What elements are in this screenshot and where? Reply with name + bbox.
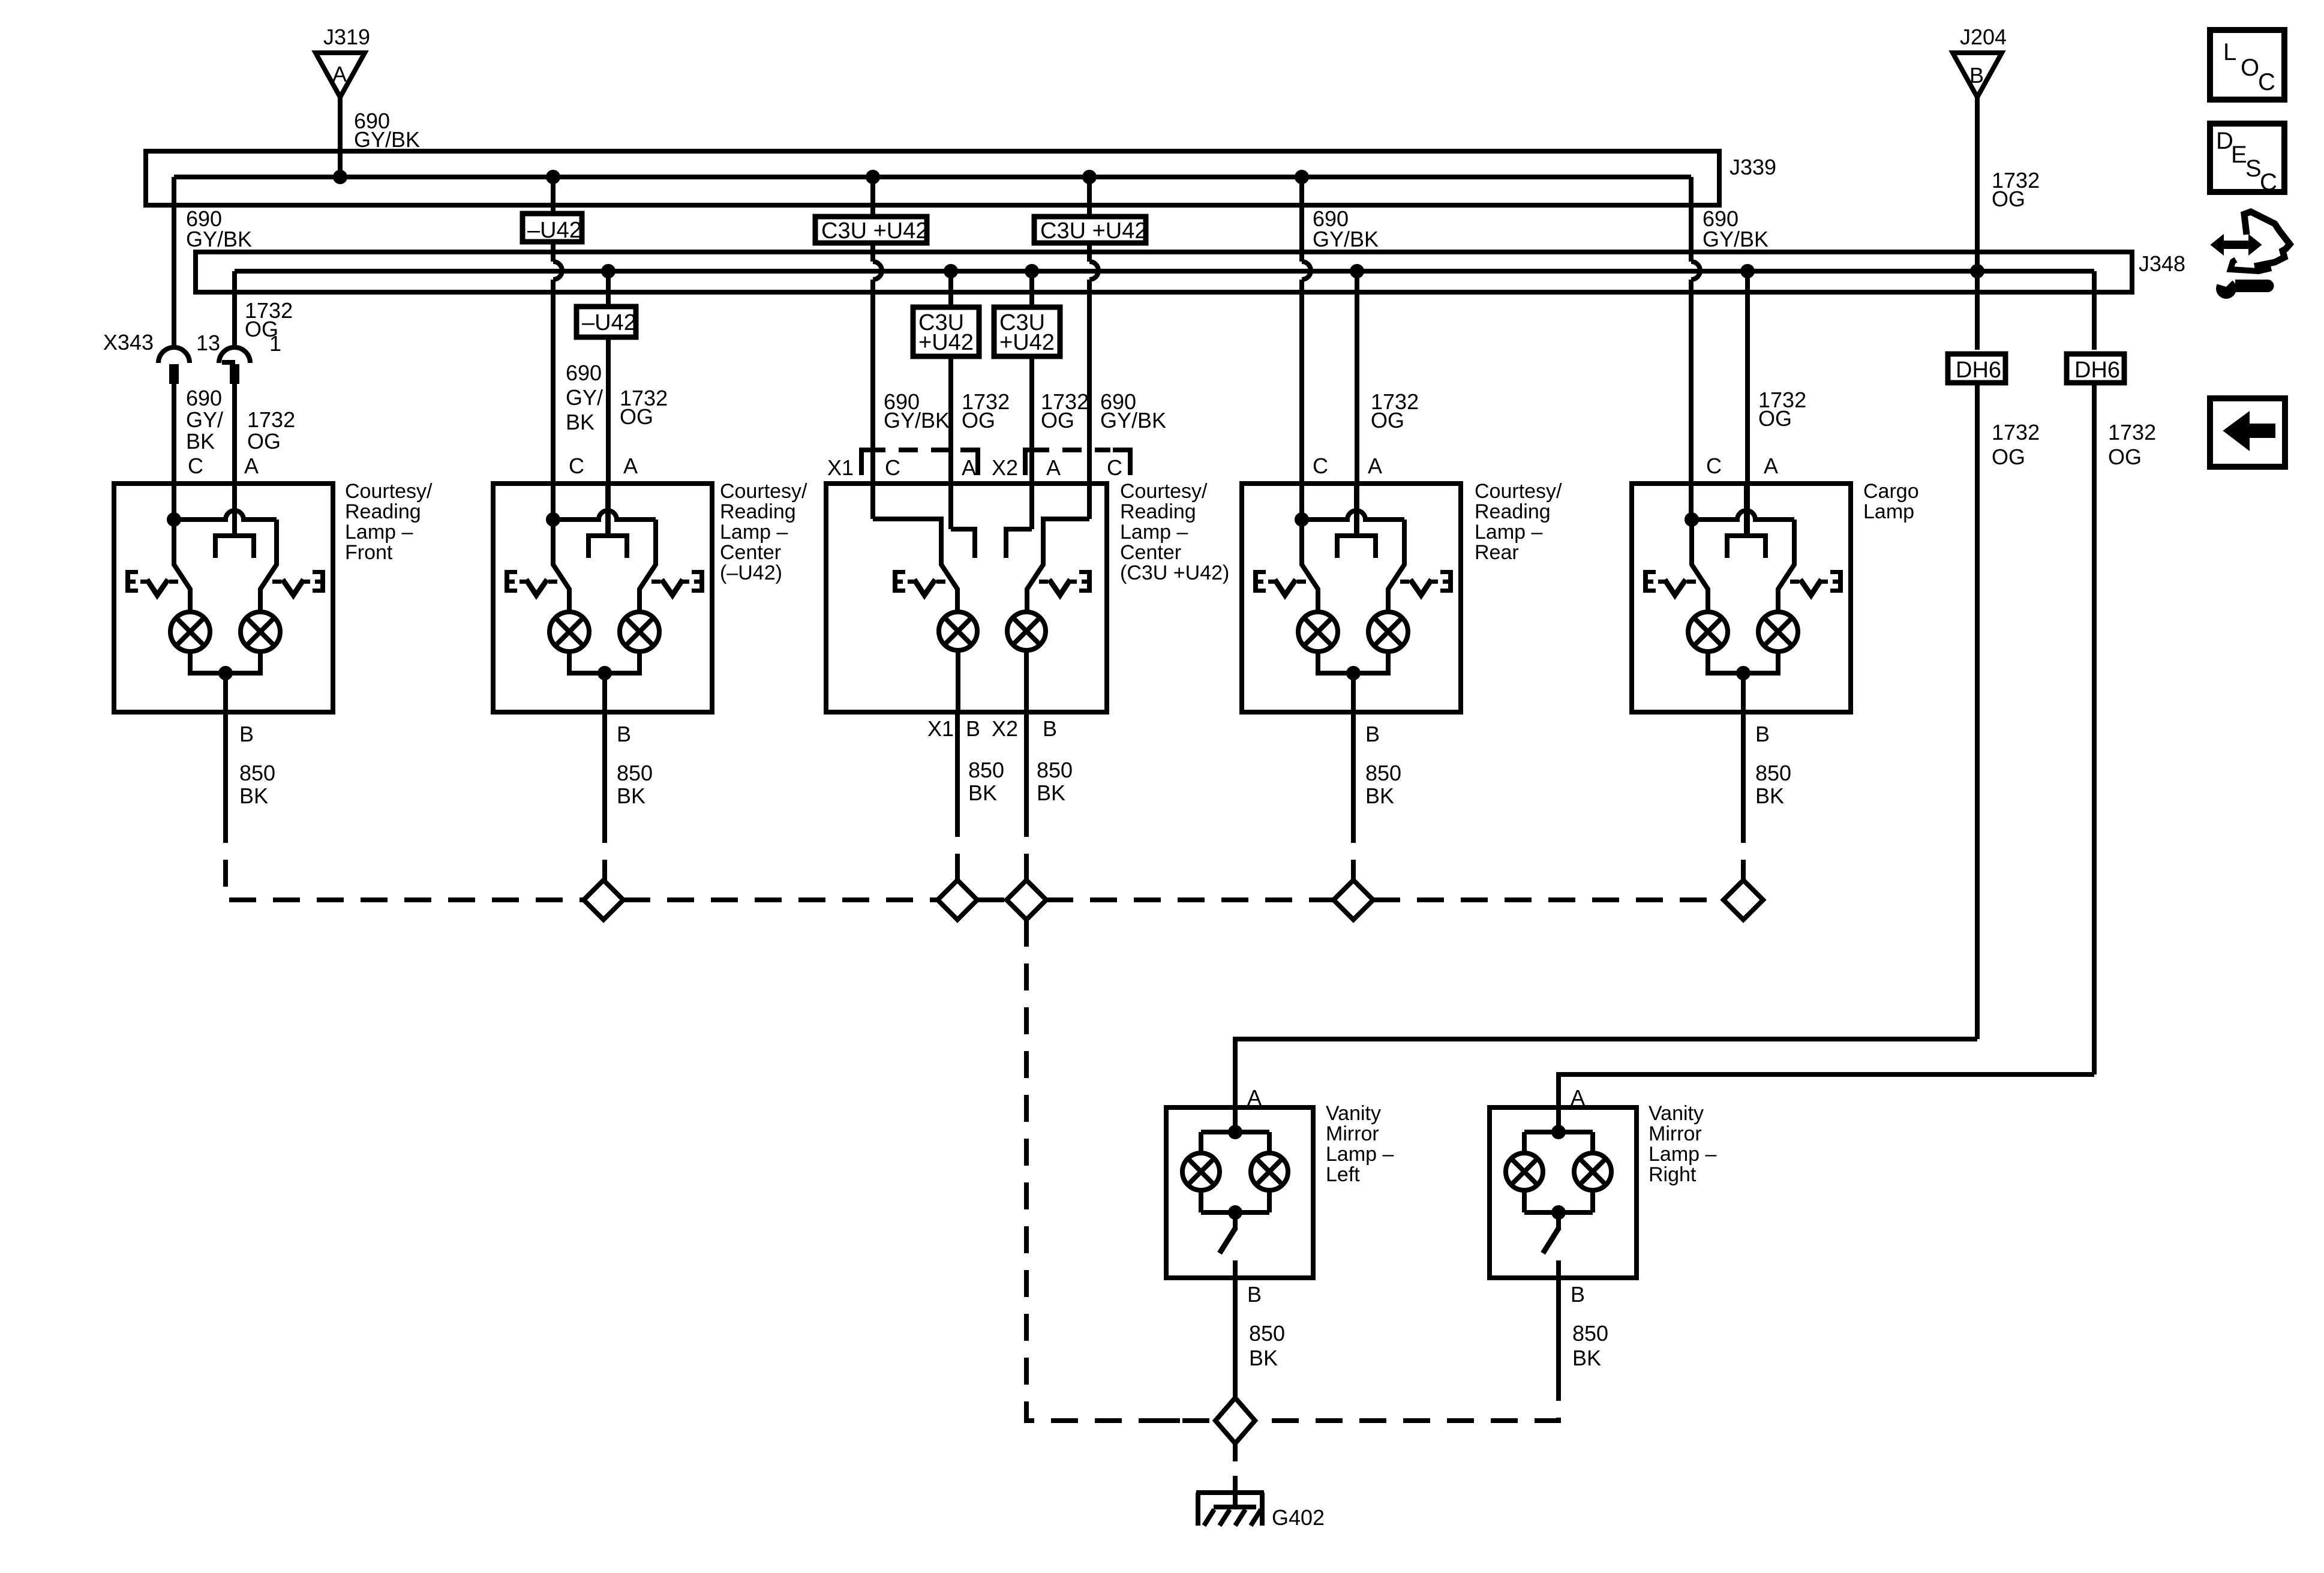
svg-text:Cargo: Cargo — [1863, 480, 1919, 503]
svg-text:Reading: Reading — [720, 500, 796, 523]
svg-text:A: A — [1368, 454, 1382, 478]
svg-text:C3U +U42: C3U +U42 — [821, 218, 928, 244]
svg-text:C: C — [885, 455, 900, 480]
svg-text:BK: BK — [186, 429, 215, 454]
svg-text:GY/BK: GY/BK — [1100, 408, 1166, 433]
svg-text:BK: BK — [566, 410, 594, 434]
svg-text:A: A — [1764, 454, 1778, 478]
svg-text:A: A — [962, 455, 976, 480]
svg-text:GY/: GY/ — [566, 385, 603, 410]
svg-text:690: 690 — [186, 386, 222, 410]
svg-text:Center: Center — [1120, 541, 1181, 564]
svg-text:BK: BK — [1572, 1346, 1601, 1370]
svg-text:B: B — [1571, 1282, 1585, 1307]
svg-text:B: B — [1365, 722, 1380, 746]
svg-text:X1: X1 — [927, 716, 954, 741]
svg-text:Vanity: Vanity — [1326, 1102, 1381, 1125]
svg-text:BK: BK — [1755, 784, 1784, 808]
svg-text:O: O — [2241, 55, 2259, 81]
svg-text:C: C — [1107, 455, 1122, 480]
svg-text:Rear: Rear — [1475, 541, 1519, 564]
svg-text:Reading: Reading — [1475, 500, 1551, 523]
svg-text:GY/BK: GY/BK — [884, 408, 950, 433]
svg-text:(–U42): (–U42) — [720, 562, 782, 584]
svg-text:A: A — [244, 454, 259, 478]
svg-text:J339: J339 — [1730, 155, 1776, 179]
svg-text:BK: BK — [617, 784, 645, 808]
svg-text:1732: 1732 — [1992, 420, 2040, 445]
svg-text:C: C — [1706, 454, 1722, 478]
svg-text:Lamp: Lamp — [1863, 500, 1914, 523]
svg-text:OG: OG — [1992, 187, 2025, 211]
svg-text:OG: OG — [962, 408, 995, 433]
svg-text:C: C — [2260, 169, 2277, 196]
svg-text:L: L — [2223, 39, 2236, 65]
svg-text:850: 850 — [1365, 761, 1401, 785]
svg-text:C: C — [1313, 454, 1328, 478]
svg-text:B: B — [1247, 1282, 1262, 1307]
svg-text:850: 850 — [239, 761, 275, 785]
svg-text:1732: 1732 — [2108, 420, 2156, 445]
svg-text:OG: OG — [1992, 445, 2025, 469]
svg-text:Center: Center — [720, 541, 781, 564]
svg-text:DH6: DH6 — [2074, 358, 2120, 383]
svg-text:1732: 1732 — [247, 407, 295, 432]
svg-text:B: B — [239, 722, 254, 746]
svg-text:+U42: +U42 — [918, 330, 974, 355]
svg-text:OG: OG — [2108, 445, 2142, 469]
svg-text:GY/BK: GY/BK — [1313, 227, 1379, 251]
svg-text:Lamp –: Lamp – — [720, 521, 788, 544]
svg-text:J319: J319 — [323, 25, 370, 49]
svg-text:DH6: DH6 — [1956, 358, 2001, 383]
svg-text:GY/BK: GY/BK — [1703, 227, 1768, 251]
svg-text:Vanity: Vanity — [1649, 1102, 1704, 1125]
svg-text:Left: Left — [1326, 1163, 1360, 1186]
svg-text:690: 690 — [566, 361, 602, 385]
svg-text:J204: J204 — [1960, 25, 2007, 49]
svg-text:A: A — [1571, 1085, 1585, 1110]
svg-text:B: B — [966, 716, 980, 741]
svg-text:OG: OG — [247, 429, 281, 454]
svg-text:C: C — [569, 454, 584, 478]
svg-text:Mirror: Mirror — [1326, 1122, 1379, 1145]
svg-text:Right: Right — [1649, 1163, 1697, 1186]
svg-text:S: S — [2245, 155, 2262, 182]
svg-text:GY/BK: GY/BK — [354, 127, 420, 152]
svg-text:E: E — [2231, 142, 2247, 168]
svg-text:850: 850 — [968, 758, 1004, 782]
svg-text:B: B — [1969, 63, 1984, 88]
svg-text:–U42: –U42 — [582, 310, 636, 335]
svg-text:G402: G402 — [1272, 1505, 1325, 1530]
svg-text:BK: BK — [1249, 1346, 1278, 1370]
svg-text:OG: OG — [1371, 408, 1404, 433]
svg-text:X2: X2 — [992, 716, 1018, 741]
svg-text:A: A — [1247, 1085, 1262, 1110]
svg-text:850: 850 — [1249, 1321, 1285, 1346]
svg-text:Courtesy/: Courtesy/ — [345, 480, 433, 503]
svg-text:X343: X343 — [103, 330, 154, 355]
svg-text:X2: X2 — [992, 455, 1018, 480]
svg-text:BK: BK — [239, 784, 268, 808]
svg-text:Lamp –: Lamp – — [1475, 521, 1542, 544]
svg-text:Courtesy/: Courtesy/ — [720, 480, 807, 503]
svg-text:Reading: Reading — [1120, 500, 1196, 523]
svg-text:850: 850 — [1755, 761, 1791, 785]
svg-text:Front: Front — [345, 541, 393, 564]
svg-text:Courtesy/: Courtesy/ — [1120, 480, 1208, 503]
svg-text:(C3U +U42): (C3U +U42) — [1120, 562, 1229, 584]
svg-text:–U42: –U42 — [527, 218, 582, 243]
svg-text:C: C — [188, 454, 203, 478]
svg-text:Reading: Reading — [345, 500, 421, 523]
svg-text:Lamp –: Lamp – — [1120, 521, 1188, 544]
svg-text:850: 850 — [617, 761, 653, 785]
svg-text:X1: X1 — [827, 455, 854, 480]
svg-text:Lamp –: Lamp – — [1649, 1143, 1716, 1166]
svg-text:850: 850 — [1037, 758, 1073, 782]
svg-text:J348: J348 — [2139, 251, 2185, 276]
svg-text:OG: OG — [1041, 408, 1074, 433]
svg-text:C: C — [2258, 69, 2275, 95]
svg-text:Lamp –: Lamp – — [345, 521, 413, 544]
svg-text:OG: OG — [245, 317, 278, 341]
svg-text:GY/: GY/ — [186, 407, 223, 432]
svg-text:A: A — [623, 454, 638, 478]
svg-text:BK: BK — [1365, 784, 1394, 808]
svg-text:A: A — [1046, 455, 1061, 480]
svg-text:B: B — [617, 722, 631, 746]
svg-text:BK: BK — [1037, 781, 1065, 805]
svg-text:B: B — [1755, 722, 1770, 746]
svg-text:OG: OG — [1758, 406, 1792, 431]
svg-text:C3U +U42: C3U +U42 — [1040, 218, 1147, 244]
svg-text:Mirror: Mirror — [1649, 1122, 1702, 1145]
svg-text:OG: OG — [620, 404, 653, 429]
svg-text:B: B — [1043, 716, 1057, 741]
svg-text:Lamp –: Lamp – — [1326, 1143, 1394, 1166]
svg-text:+U42: +U42 — [999, 330, 1055, 355]
svg-text:Courtesy/: Courtesy/ — [1475, 480, 1562, 503]
svg-text:13: 13 — [196, 331, 220, 355]
svg-text:GY/BK: GY/BK — [186, 227, 252, 251]
svg-text:BK: BK — [968, 781, 997, 805]
svg-text:850: 850 — [1572, 1321, 1608, 1346]
svg-text:A: A — [332, 62, 347, 86]
